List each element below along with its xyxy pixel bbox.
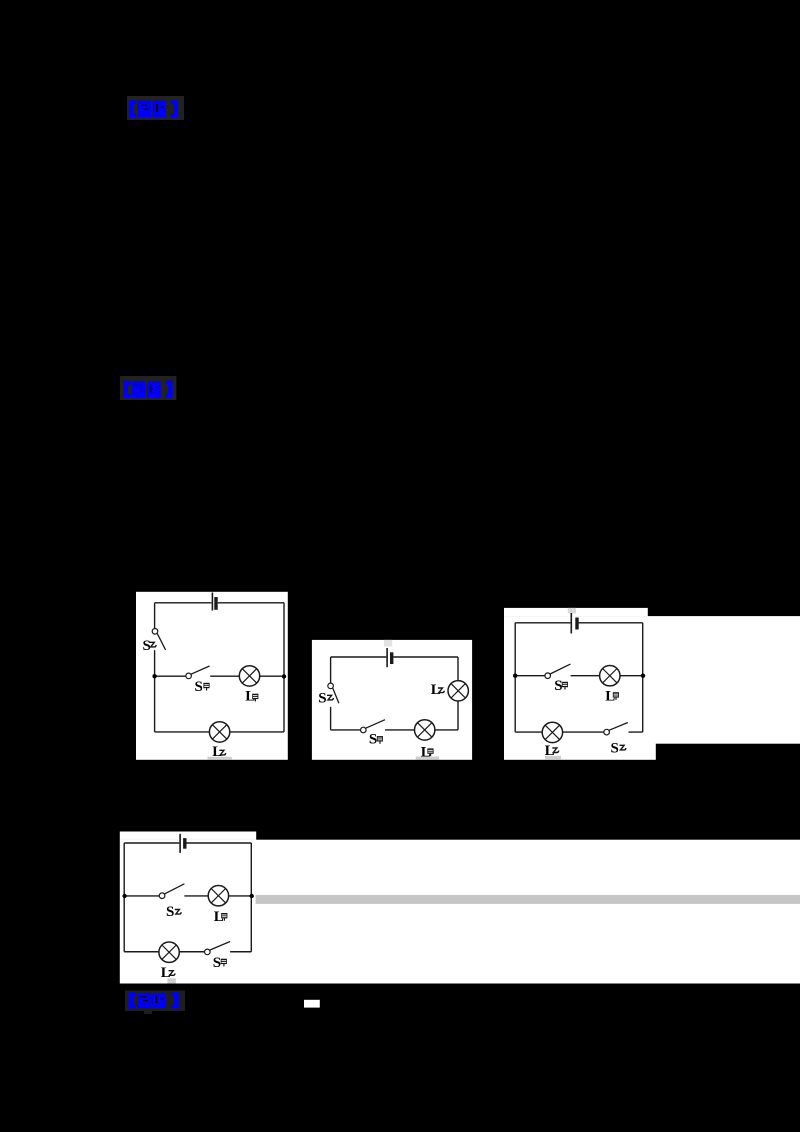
C1 left wire upper xyxy=(154,603,156,629)
C2 bottom wire xyxy=(331,729,458,731)
C1 label S乙 xyxy=(143,638,157,654)
C2 lamp L2 xyxy=(448,681,468,701)
circuit panel 1 (white box) xyxy=(136,592,288,760)
C1 right wire xyxy=(283,603,285,732)
C1 junction node left xyxy=(152,674,156,678)
C1 switch S1 xyxy=(186,666,210,679)
highlight box behind label 3 xyxy=(125,991,185,1012)
circuit panel 4 (white box, top strip) xyxy=(120,832,256,840)
C2 label L乙 xyxy=(431,682,445,698)
C1 label L甲 xyxy=(245,689,258,705)
C3 right wire xyxy=(642,623,644,732)
C2 label L甲 xyxy=(421,745,434,761)
C4 lamp L2 xyxy=(159,942,179,962)
svg-text:S: S xyxy=(611,740,619,756)
C1 battery xyxy=(212,593,216,611)
C3 switch S2 xyxy=(604,723,628,735)
circuit panel 4 (white line band to right margin) xyxy=(120,840,800,984)
C4 label L乙 xyxy=(161,965,175,981)
svg-text:S: S xyxy=(195,679,203,695)
C4 middle wire xyxy=(124,895,252,897)
C1 top wire xyxy=(155,602,284,604)
C2 gray handle above battery xyxy=(384,640,392,647)
C3 junction node right xyxy=(641,674,645,678)
C4 label S乙 xyxy=(166,904,181,920)
C4 top wire xyxy=(124,842,251,844)
C4 switch S1 xyxy=(205,942,231,955)
C1 gray bar under L2 xyxy=(208,757,232,760)
C1 bottom wire xyxy=(155,731,284,733)
circuit panel 3 (white box, top strip) xyxy=(504,608,648,616)
circuit panel 3 (white line band to right margin) xyxy=(504,616,800,744)
highlight box behind label 1 xyxy=(127,96,184,120)
C3 lamp L1 xyxy=(600,666,620,686)
blue label 【点拨】 xyxy=(123,380,172,397)
svg-text:S: S xyxy=(318,690,326,706)
C4 label S甲 xyxy=(213,955,227,971)
C2 right wire xyxy=(457,657,459,730)
C2 switch S1 xyxy=(361,720,386,733)
C2 left wire upper xyxy=(330,657,332,683)
C4 battery xyxy=(180,834,185,853)
C3 gray bar under L2 xyxy=(545,756,561,759)
C1 label S甲 xyxy=(195,679,210,695)
C4 bottom wire xyxy=(124,951,251,953)
C3 gray handle above battery xyxy=(568,608,576,614)
C1 lamp L1 xyxy=(239,666,259,686)
C4 left wire xyxy=(123,843,125,952)
gray selection band xyxy=(256,895,800,904)
C1 junction node right xyxy=(282,674,286,678)
C2 label S乙 xyxy=(318,690,333,706)
highlight box behind label 2 xyxy=(120,376,176,400)
C3 label S乙 xyxy=(611,740,626,756)
C2 label S甲 xyxy=(369,732,383,748)
C4 right wire xyxy=(250,843,252,952)
C3 middle wire xyxy=(515,675,643,677)
blue label 【答案】 xyxy=(128,992,178,1008)
C4 junction node right xyxy=(250,894,254,898)
C1 label L乙 xyxy=(212,744,225,760)
svg-text:S: S xyxy=(166,904,174,920)
svg-text:S: S xyxy=(554,678,562,694)
C3 top wire xyxy=(515,622,643,624)
dark tail below label 3 xyxy=(144,1008,152,1014)
C3 battery xyxy=(571,613,577,634)
C1 middle wire xyxy=(155,675,284,677)
svg-text:S: S xyxy=(213,955,221,971)
svg-text:S: S xyxy=(369,732,377,748)
svg-text:S: S xyxy=(143,638,151,654)
circuit panel 3 (white box, bottom strip) xyxy=(504,744,656,760)
C1 lamp L2 xyxy=(209,722,229,742)
C1 switch S2 xyxy=(152,629,165,650)
C4 gray bar under L2 xyxy=(167,978,176,983)
circuit panel 2 (white box) xyxy=(312,640,472,760)
C2 gray bar under L1 xyxy=(416,757,439,760)
C2 top wire xyxy=(331,656,458,658)
C3 bottom wire xyxy=(515,731,643,733)
svg-text:L: L xyxy=(431,682,441,698)
C4 switch S2 xyxy=(159,884,184,899)
C3 switch S1 xyxy=(545,664,571,678)
C1 left wire lower xyxy=(154,650,156,732)
C2 battery xyxy=(387,648,392,667)
white answer dash xyxy=(304,1000,320,1008)
C3 junction node left xyxy=(513,674,517,678)
C4 label L甲 xyxy=(214,909,228,925)
C2 lamp L1 xyxy=(415,720,435,740)
C4 lamp L1 xyxy=(208,886,228,906)
C3 label S甲 xyxy=(554,678,568,694)
C3 lamp L2 xyxy=(542,722,562,742)
C3 label L乙 xyxy=(545,743,559,759)
C2 switch S2 xyxy=(328,683,339,703)
C3 left wire xyxy=(514,623,516,732)
C4 junction node left xyxy=(122,894,126,898)
blue label 【解析】 xyxy=(129,100,178,117)
C2 left wire lower xyxy=(330,707,332,730)
C3 label L甲 xyxy=(605,688,619,704)
